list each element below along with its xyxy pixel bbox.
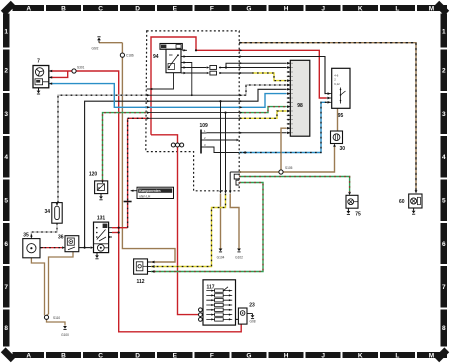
wire brown from ground G9/2 to junction bbox=[99, 42, 122, 44]
wire green/red dashed to switch 75 bbox=[239, 177, 349, 193]
wire black relay 94 pin tap down to grey bus bbox=[187, 63, 192, 96]
svg-text:G102: G102 bbox=[235, 256, 243, 260]
wire red supply from relay to module 95 bbox=[151, 37, 327, 135]
svg-text:1: 1 bbox=[442, 28, 446, 35]
wire red/black dashed to interior lamp node bbox=[127, 118, 129, 227]
motor 7 ground bbox=[38, 88, 40, 91]
svg-text:112: 112 bbox=[136, 279, 144, 285]
wire red loop from motor 7 pin2 bbox=[50, 71, 68, 77]
wire blue from motor 7 to ECU 98 bbox=[49, 84, 287, 108]
svg-text:G104: G104 bbox=[217, 256, 225, 260]
relay 94 bbox=[160, 44, 182, 50]
wire black from relay to module 95 bbox=[187, 57, 327, 94]
splice S105 bbox=[279, 170, 283, 174]
ground G100 bbox=[63, 326, 67, 329]
clock 23 ground G08 bbox=[247, 313, 253, 315]
svg-text:7: 7 bbox=[442, 284, 446, 291]
svg-text:M: M bbox=[429, 5, 434, 12]
svg-text:S301: S301 bbox=[77, 66, 85, 70]
svg-text:H: H bbox=[284, 353, 289, 360]
svg-text:K: K bbox=[358, 353, 363, 360]
motor 7 pin stubs bbox=[49, 70, 52, 72]
svg-text:C: C bbox=[98, 353, 103, 360]
lamp 60 bbox=[409, 194, 422, 208]
frame corner miters bbox=[3, 3, 13, 13]
wire red/black dashed horizontal into harness bbox=[128, 117, 147, 119]
svg-text:D: D bbox=[135, 5, 140, 12]
connector C186 bbox=[120, 53, 124, 57]
wire brown node 111 to motor 30 via splice S105 bbox=[229, 172, 231, 191]
svg-text:S110: S110 bbox=[53, 316, 60, 320]
svg-text:G: G bbox=[246, 353, 251, 360]
clock 23 bbox=[238, 308, 247, 324]
wire brown horn 35 to splice S110 bbox=[31, 258, 44, 316]
wire green/red dashed to relay 112 bbox=[151, 183, 263, 272]
splice S110 bbox=[47, 319, 66, 325]
motor 30 bbox=[331, 131, 343, 144]
svg-text:109: 109 bbox=[200, 123, 209, 129]
svg-text:G: G bbox=[246, 5, 251, 12]
ground G102 bbox=[237, 249, 241, 252]
wire black relay 94 bottom pin to harness edge bbox=[147, 73, 174, 89]
svg-text:J: J bbox=[321, 353, 325, 360]
svg-text:60: 60 bbox=[399, 199, 405, 205]
svg-text:7: 7 bbox=[4, 284, 8, 291]
wire grey fuse 34 to horn 35 bbox=[31, 223, 57, 236]
svg-text:6: 6 bbox=[4, 241, 8, 248]
wire brown/black dashed to lamp 60 bbox=[239, 43, 416, 191]
terminator bar on red/black wire bbox=[124, 201, 132, 203]
svg-text:K: K bbox=[358, 5, 363, 12]
wire yellow/black diode block to ECU 98 bbox=[219, 72, 252, 74]
wire black node 111 tap from green bus bbox=[225, 113, 227, 191]
wire black node 111 tap from black bus bbox=[220, 101, 222, 191]
svg-text:1: 1 bbox=[4, 28, 8, 35]
switch 75 bbox=[346, 195, 358, 208]
frame bottom letter bar bbox=[13, 352, 448, 358]
wire black connector 109 pin2 stub bbox=[207, 139, 237, 141]
svg-text:B: B bbox=[61, 353, 66, 360]
wire red from motor 7 pin1 through S301 down to bottom rail bbox=[50, 71, 241, 332]
wire black bus to ECU 98 bbox=[85, 89, 287, 247]
svg-text:L: L bbox=[395, 353, 399, 360]
svg-text:M: M bbox=[429, 353, 434, 360]
svg-text:6: 6 bbox=[442, 241, 446, 248]
svg-text:E: E bbox=[173, 5, 178, 12]
wire black relay 94 pin to diode block bbox=[187, 67, 207, 69]
svg-text:5: 5 bbox=[442, 197, 446, 204]
ignition switch 131 bbox=[94, 222, 109, 253]
relay 112 pin stubs bbox=[148, 261, 152, 263]
wire brown splice S105 up to ECU 98 bbox=[281, 128, 287, 172]
fusebox 117 bbox=[203, 280, 236, 325]
svg-text:2: 2 bbox=[4, 68, 8, 75]
svg-text:C186: C186 bbox=[126, 54, 134, 58]
wire black switch 36 to ignition switch 131 bbox=[79, 247, 91, 249]
bus crossing arrows at harness left edge bbox=[147, 94, 150, 96]
horn 35 pin stubs bbox=[40, 247, 43, 249]
svg-text:75: 75 bbox=[355, 212, 361, 218]
wire brown node 111 to ground G102 bbox=[230, 194, 239, 249]
fuse 34 bbox=[52, 203, 62, 224]
svg-text:B: B bbox=[61, 5, 66, 12]
ground G9/2 bbox=[98, 40, 100, 43]
svg-text:E: E bbox=[173, 353, 178, 360]
dashed harness boundary box bbox=[146, 31, 239, 191]
svg-text:uten LH: uten LH bbox=[139, 194, 151, 198]
svg-text:117: 117 bbox=[206, 285, 214, 291]
splice row (triple connector) bbox=[171, 143, 175, 147]
wire brown node 111 to ground G104 bbox=[220, 194, 222, 249]
ignition switch 131 ground bbox=[96, 253, 98, 256]
bus crossing arrows at harness right edge bbox=[240, 49, 243, 51]
switch 75 ground bbox=[347, 208, 349, 211]
svg-text:8: 8 bbox=[442, 325, 446, 332]
svg-text:4: 4 bbox=[442, 154, 446, 161]
wire red/black dashed horn 35 to switch 36 bbox=[40, 247, 62, 249]
svg-text:G9/2: G9/2 bbox=[92, 47, 99, 51]
relay 120 bbox=[95, 181, 108, 194]
svg-text:G100: G100 bbox=[61, 333, 69, 337]
svg-text:5: 5 bbox=[4, 197, 8, 204]
wire black connector 109 pin1 to ECU 98 bbox=[207, 132, 287, 134]
ignition switch 131 pin stubs bbox=[109, 227, 112, 229]
fusebox 117 left connector rings bbox=[199, 308, 203, 312]
motor 7 (cooling fan) bbox=[33, 66, 49, 88]
wire black fusebox 117 to clock 23 bbox=[232, 318, 239, 320]
wire red ignition switch 131 pin feed bbox=[112, 227, 128, 229]
relay 120 ground bbox=[100, 194, 102, 197]
svg-text:F: F bbox=[210, 5, 214, 12]
wire brown main vertical via connector C186 down to relay box 112 bbox=[121, 43, 123, 53]
wire brown module 95 to motor 30 bbox=[337, 108, 339, 131]
wire grey/black dashed from fuse 34 to ECU 98 bbox=[58, 95, 147, 202]
svg-text:98: 98 bbox=[297, 103, 303, 109]
svg-text:S105: S105 bbox=[285, 166, 293, 170]
switch 36 bbox=[65, 236, 79, 252]
frame top letter bar bbox=[13, 5, 448, 11]
svg-text:H: H bbox=[284, 5, 289, 12]
svg-text:8: 8 bbox=[4, 325, 8, 332]
frame right number bar bbox=[441, 14, 447, 347]
svg-text:30: 30 bbox=[340, 146, 346, 152]
svg-text:95: 95 bbox=[338, 113, 344, 119]
svg-text:36: 36 bbox=[58, 235, 64, 241]
svg-text:Komponenten: Komponenten bbox=[139, 189, 160, 193]
connector 109 bbox=[200, 130, 202, 154]
relay 112 bbox=[134, 259, 148, 274]
svg-text:J: J bbox=[321, 5, 325, 12]
wire green/red dashed from relay 120 to ECU 98 bbox=[103, 113, 147, 181]
svg-text:G08: G08 bbox=[249, 320, 255, 324]
wire black diode block to ECU 98 pins bbox=[219, 67, 287, 69]
relay 94 pin stubs bbox=[182, 49, 187, 51]
svg-text:4: 4 bbox=[4, 154, 8, 161]
svg-text:A: A bbox=[26, 5, 31, 12]
splice S301 bbox=[72, 69, 76, 73]
diode block between relay and ECU bbox=[210, 66, 217, 70]
svg-text:23: 23 bbox=[249, 302, 255, 308]
callout label box (component w/o ref) bbox=[131, 190, 137, 192]
ECU 98 (control module) bbox=[290, 60, 310, 136]
module 95 pin stubs bbox=[327, 93, 332, 95]
horn 35 bbox=[23, 239, 40, 258]
svg-text:120: 120 bbox=[89, 171, 98, 177]
lamp 60 ground bbox=[413, 208, 415, 211]
svg-text:D: D bbox=[135, 353, 140, 360]
svg-text:A: A bbox=[26, 353, 31, 360]
svg-text:F: F bbox=[210, 353, 214, 360]
wire yellow/black node 111 to relay 112 bbox=[151, 194, 226, 267]
connector bracket pair bbox=[234, 174, 239, 179]
svg-text:2: 2 bbox=[442, 68, 446, 75]
frame left number bar bbox=[3, 14, 9, 347]
ground G104 bbox=[219, 249, 223, 252]
svg-text:131: 131 bbox=[97, 215, 106, 221]
module 95 bbox=[332, 68, 350, 108]
svg-text:35: 35 bbox=[23, 233, 29, 239]
svg-text:34: 34 bbox=[44, 209, 50, 215]
svg-text:94: 94 bbox=[153, 54, 159, 60]
svg-text:3: 3 bbox=[442, 111, 446, 118]
junction dot relay pin bbox=[195, 49, 197, 51]
svg-text:C: C bbox=[98, 5, 103, 12]
wire red down to fusebox 117 bbox=[151, 135, 198, 315]
wire red ignition switch 131 pin2 stub bbox=[112, 232, 119, 234]
node 111 crossing arrows bbox=[219, 191, 221, 194]
svg-text:6,12: 6,12 bbox=[334, 82, 340, 86]
svg-text:7: 7 bbox=[37, 59, 40, 65]
wire red/black bus inside harness, yellow to ECU bbox=[147, 117, 240, 119]
wire blue/black dashed from module 95 to connector 109 bbox=[239, 102, 326, 152]
svg-text:L: L bbox=[395, 5, 399, 12]
svg-text:3: 3 bbox=[4, 111, 8, 118]
ECU 98 pin stubs bbox=[287, 62, 291, 64]
wire brown switch 36 to splice S110 bbox=[49, 252, 74, 314]
